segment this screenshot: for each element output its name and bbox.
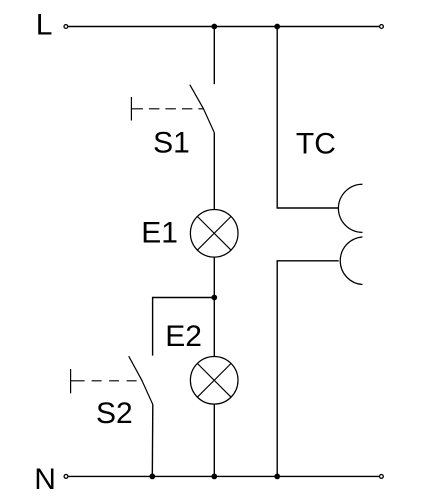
svg-text:E1: E1 [141,216,178,249]
terminal N right [380,475,384,479]
junction dot on N rail at main branch [211,474,217,480]
terminal L right [380,25,384,29]
wire E1 to node [213,257,215,297]
wire TC secondary to N rail [277,261,339,477]
wire TC primary from L rail [277,27,338,209]
junction dot on L rail at TC branch [274,24,280,30]
switch S1 blade [190,85,214,133]
wire N rail [68,475,379,477]
lamp E2 circle [190,357,238,405]
junction dot on N rail at TC branch [274,474,280,480]
svg-text:L: L [36,9,53,42]
junction node between E1 and E2 [211,295,217,301]
wire L rail [68,26,379,28]
transformer TC primary winding arc [338,184,362,232]
lamp E1 cross stroke 1 [197,216,231,250]
lamp E1 circle [190,210,238,258]
lamp E2 cross stroke 1 [197,363,231,397]
wire node to E2 [213,298,215,357]
transformer TC secondary winding arc [340,237,362,285]
svg-text:E2: E2 [165,320,202,353]
svg-text:N: N [34,463,56,496]
wire S2 to N rail [151,405,154,477]
switch S2 actuator bar [70,369,72,393]
terminal L left [64,25,68,29]
svg-text:S1: S1 [153,126,190,159]
lamp E1 cross stroke 2 [197,216,231,250]
lamp E2 cross stroke 2 [197,363,231,397]
switch S1 actuator bar [130,97,132,121]
svg-text:TC: TC [296,128,336,161]
wire L rail to S1 [213,27,215,85]
junction dot on N rail at S2 branch [149,474,155,480]
switch S2 blade [129,356,153,404]
junction dot on L rail at main branch [211,24,217,30]
svg-text:S2: S2 [96,397,133,430]
wire S1 to E1 [213,132,215,209]
wire E2 to N rail [213,404,215,476]
switch S2 actuator dashed link [71,380,143,382]
terminal N left [64,475,68,479]
wire branch node to S2 [153,298,215,356]
switch S1 actuator dashed link [131,108,203,110]
